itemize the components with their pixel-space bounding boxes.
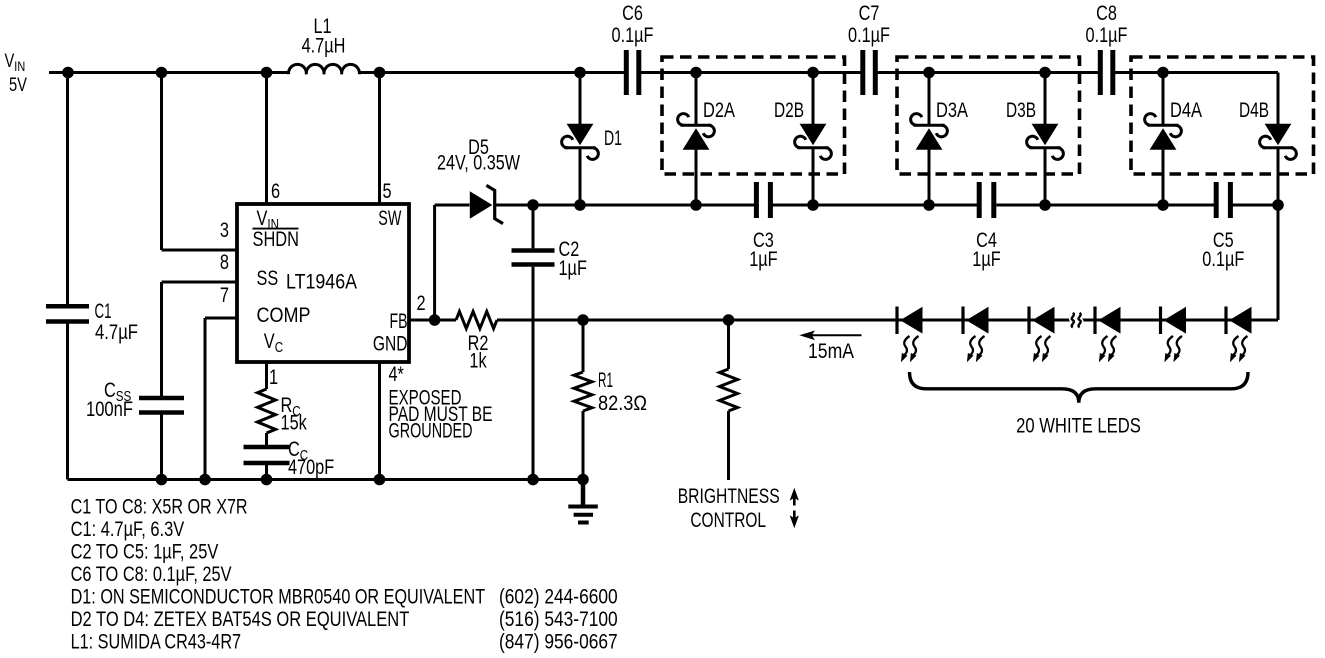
- svg-text:8: 8: [220, 251, 229, 274]
- svg-text:0.1µF: 0.1µF: [612, 24, 654, 47]
- svg-text:V: V: [257, 207, 268, 230]
- svg-text:D4B: D4B: [1239, 99, 1269, 122]
- svg-text:1k: 1k: [469, 350, 487, 373]
- svg-text:2: 2: [417, 292, 426, 315]
- svg-text:LT1946A: LT1946A: [286, 271, 357, 294]
- svg-text:L1: SUMIDA CR43-4R7: L1: SUMIDA CR43-4R7: [71, 630, 242, 653]
- svg-text:4.7µH: 4.7µH: [302, 35, 346, 58]
- svg-text:470pF: 470pF: [288, 456, 334, 479]
- svg-text:C1: C1: [95, 300, 112, 323]
- svg-text:V: V: [264, 330, 275, 353]
- svg-text:D3B: D3B: [1006, 99, 1036, 122]
- svg-text:C8: C8: [1096, 2, 1117, 25]
- svg-text:R1: R1: [598, 369, 613, 392]
- svg-text:V: V: [5, 51, 15, 72]
- svg-text:(602) 244-6600: (602) 244-6600: [499, 586, 618, 609]
- svg-text:SS: SS: [257, 267, 279, 290]
- svg-text:0.1µF: 0.1µF: [1086, 24, 1128, 47]
- svg-text:0.1µF: 0.1µF: [1202, 248, 1244, 271]
- svg-text:D2 TO D4: ZETEX BAT54S OR EQUI: D2 TO D4: ZETEX BAT54S OR EQUIVALENT: [71, 608, 410, 631]
- svg-text:C1: 4.7µF, 6.3V: C1: 4.7µF, 6.3V: [71, 518, 185, 541]
- svg-text:15mA: 15mA: [808, 340, 854, 363]
- svg-text:7: 7: [220, 284, 229, 307]
- svg-text:C1 TO C8: X5R OR X7R: C1 TO C8: X5R OR X7R: [71, 496, 248, 519]
- svg-text:15k: 15k: [281, 412, 308, 435]
- svg-text:SW: SW: [378, 207, 401, 230]
- svg-text:GROUNDED: GROUNDED: [389, 420, 473, 443]
- svg-text:D4A: D4A: [1170, 99, 1202, 122]
- svg-text:SHDN: SHDN: [253, 228, 300, 251]
- svg-text:(516) 543-7100: (516) 543-7100: [499, 608, 618, 631]
- svg-text:COMP: COMP: [257, 304, 311, 327]
- svg-text:D2B: D2B: [774, 99, 804, 122]
- svg-text:C7: C7: [859, 2, 880, 25]
- svg-text:1µF: 1µF: [559, 257, 587, 280]
- svg-text:FB: FB: [390, 310, 408, 333]
- svg-text:BRIGHTNESS: BRIGHTNESS: [678, 485, 780, 508]
- svg-text:D3A: D3A: [936, 99, 968, 122]
- svg-text:1µF: 1µF: [972, 248, 1000, 271]
- svg-text:3: 3: [220, 219, 229, 242]
- svg-text:D2A: D2A: [703, 99, 735, 122]
- svg-text:24V, 0.35W: 24V, 0.35W: [437, 152, 520, 175]
- svg-text:1: 1: [269, 366, 278, 389]
- svg-text:0.1µF: 0.1µF: [848, 24, 890, 47]
- svg-text:20 WHITE LEDS: 20 WHITE LEDS: [1016, 415, 1141, 438]
- svg-text:C2 TO C5: 1µF, 25V: C2 TO C5: 1µF, 25V: [71, 541, 219, 564]
- svg-text:C6 TO C8: 0.1µF, 25V: C6 TO C8: 0.1µF, 25V: [71, 563, 232, 586]
- svg-text:5: 5: [383, 180, 392, 203]
- svg-text:100nF: 100nF: [86, 398, 133, 421]
- svg-text:CONTROL: CONTROL: [690, 509, 766, 532]
- svg-text:D1: ON SEMICONDUCTOR MBR0540 O: D1: ON SEMICONDUCTOR MBR0540 OR EQUIVALE…: [71, 586, 486, 609]
- svg-text:82.3Ω: 82.3Ω: [598, 392, 647, 415]
- svg-text:6: 6: [271, 180, 280, 203]
- svg-text:IN: IN: [14, 58, 25, 74]
- svg-text:1µF: 1µF: [749, 248, 777, 271]
- svg-text:4*: 4*: [389, 363, 404, 386]
- svg-text:D1: D1: [604, 127, 622, 150]
- svg-text:5V: 5V: [9, 75, 27, 96]
- svg-text:(847) 956-0667: (847) 956-0667: [499, 630, 618, 653]
- svg-text:C6: C6: [622, 2, 643, 25]
- svg-text:GND: GND: [373, 333, 408, 356]
- svg-text:C: C: [275, 339, 284, 356]
- svg-text:4.7µF: 4.7µF: [95, 321, 138, 344]
